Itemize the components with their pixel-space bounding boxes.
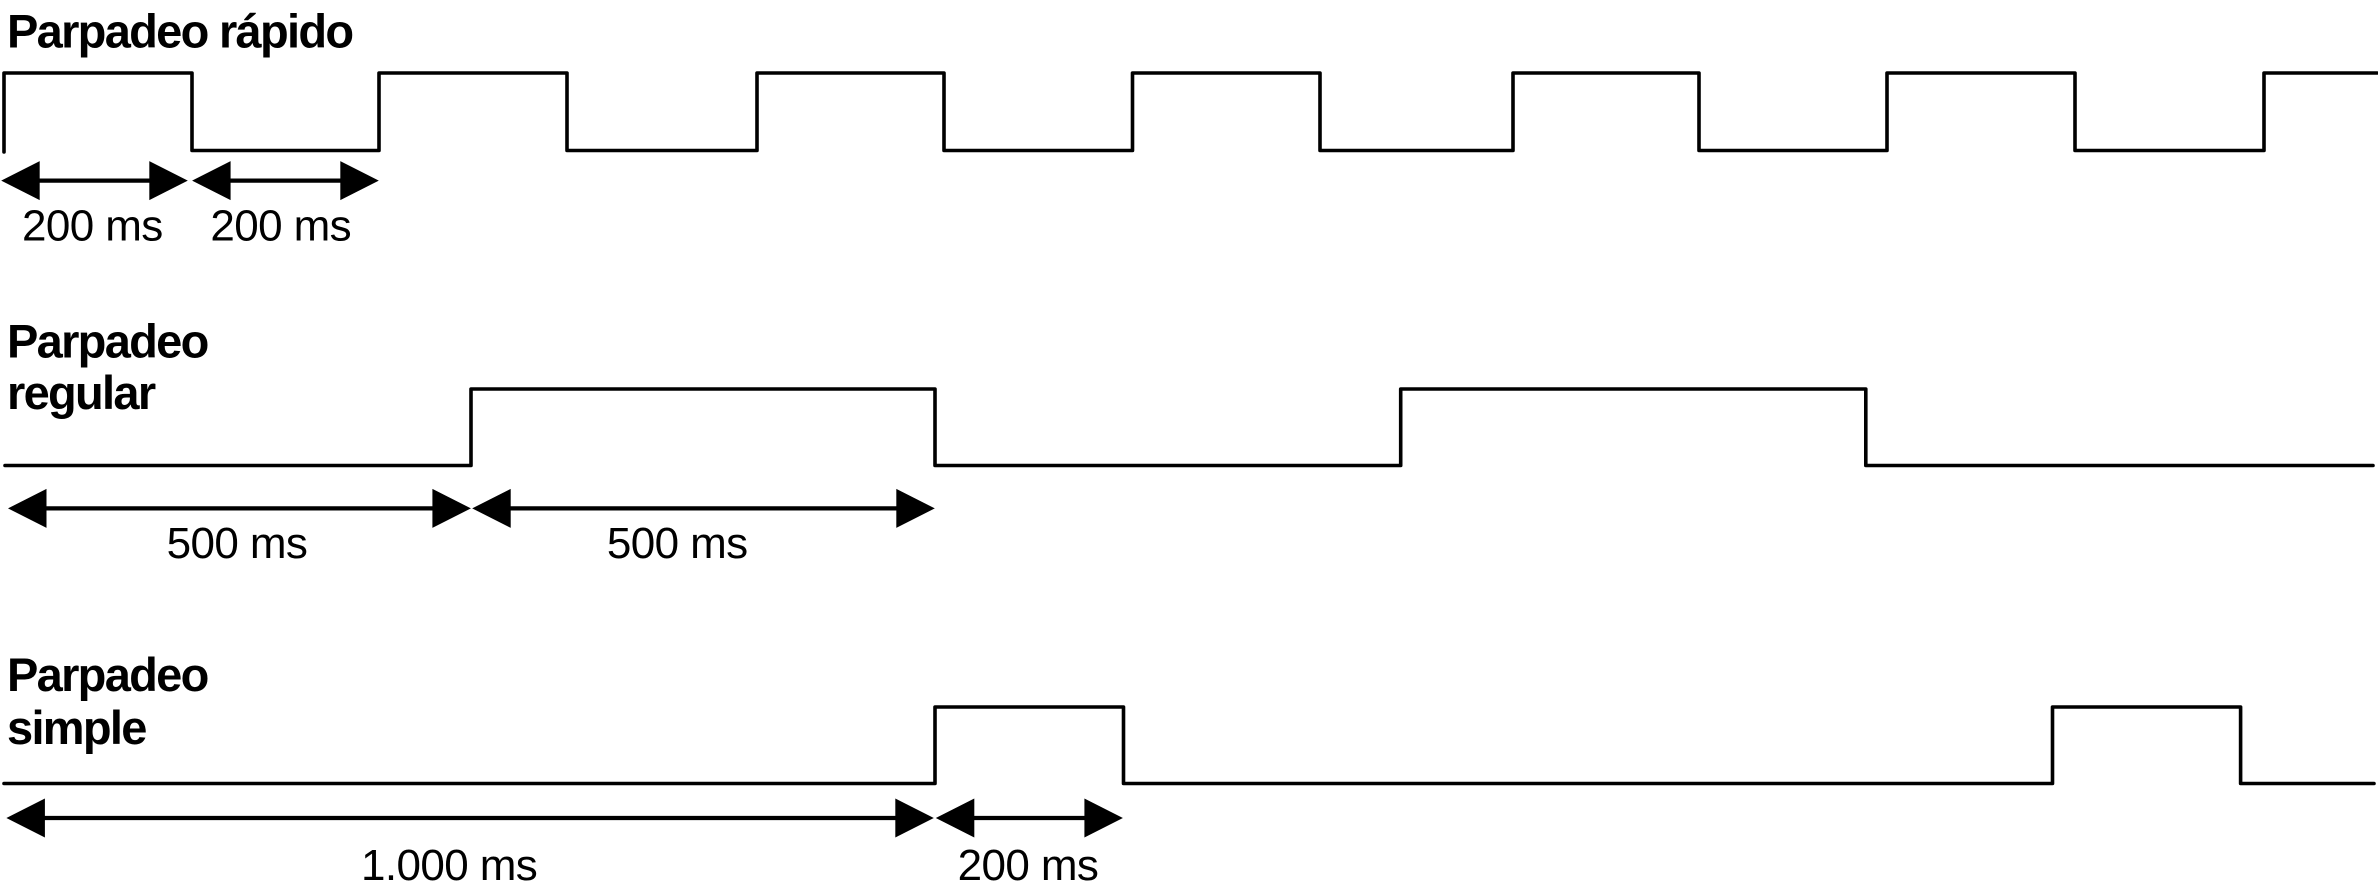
waveform: parpadeo simple (1000 ms low, 200 ms pulse) <box>4 707 2374 784</box>
svg-text:simple: simple <box>7 701 146 754</box>
svg-text:200 ms: 200 ms <box>22 202 163 251</box>
svg-text:500 ms: 500 ms <box>167 519 308 568</box>
svg-text:Parpadeo: Parpadeo <box>7 648 208 701</box>
dimension arrow: first 200 ms (row 1, left) <box>1 161 188 200</box>
svg-text:200 ms: 200 ms <box>958 841 1099 890</box>
svg-text:regular: regular <box>7 366 156 419</box>
waveform: parpadeo rapido (200 ms square wave) <box>4 73 2377 152</box>
svg-text:500 ms: 500 ms <box>607 519 748 568</box>
svg-text:200 ms: 200 ms <box>210 202 351 251</box>
dimension arrow: second 200 ms (row 1, right) <box>192 161 379 200</box>
svg-text:Parpadeo: Parpadeo <box>7 315 208 368</box>
svg-text:Parpadeo rápido: Parpadeo rápido <box>7 5 352 58</box>
dimension arrow: 200 ms (row 3, right) <box>936 799 1123 838</box>
dimension arrow: 1.000 ms (row 3, left) <box>6 799 933 838</box>
waveform: parpadeo regular (500 ms square wave) <box>5 389 2373 466</box>
svg-text:1.000 ms: 1.000 ms <box>361 841 537 890</box>
dimension arrow: second 500 ms (row 2, right) <box>472 489 935 528</box>
dimension arrow: first 500 ms (row 2, left) <box>8 489 471 528</box>
